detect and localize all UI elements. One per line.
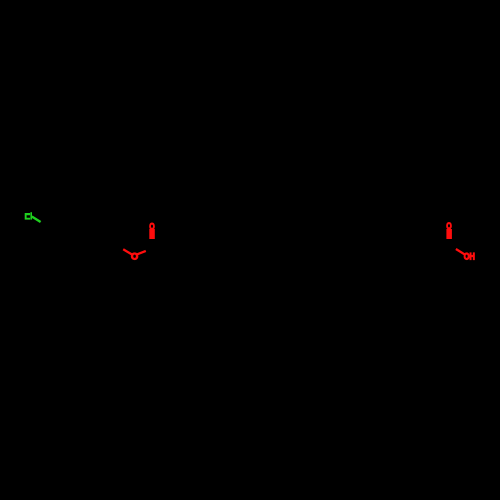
- svg-text:OH: OH: [464, 252, 475, 262]
- bond C-OH half (red): [456, 249, 465, 255]
- atom Cl (chlorine label): [25, 213, 30, 220]
- double bond C=O acid (red half, two parallel lines): [446, 229, 452, 239]
- bond C-O ester left half (red): [123, 249, 133, 255]
- bond Cl-C (green half-bond): [32, 217, 41, 223]
- double bond C=O ester (red half, two parallel lines): [149, 229, 155, 239]
- bond O-C ester right half (red): [136, 251, 146, 255]
